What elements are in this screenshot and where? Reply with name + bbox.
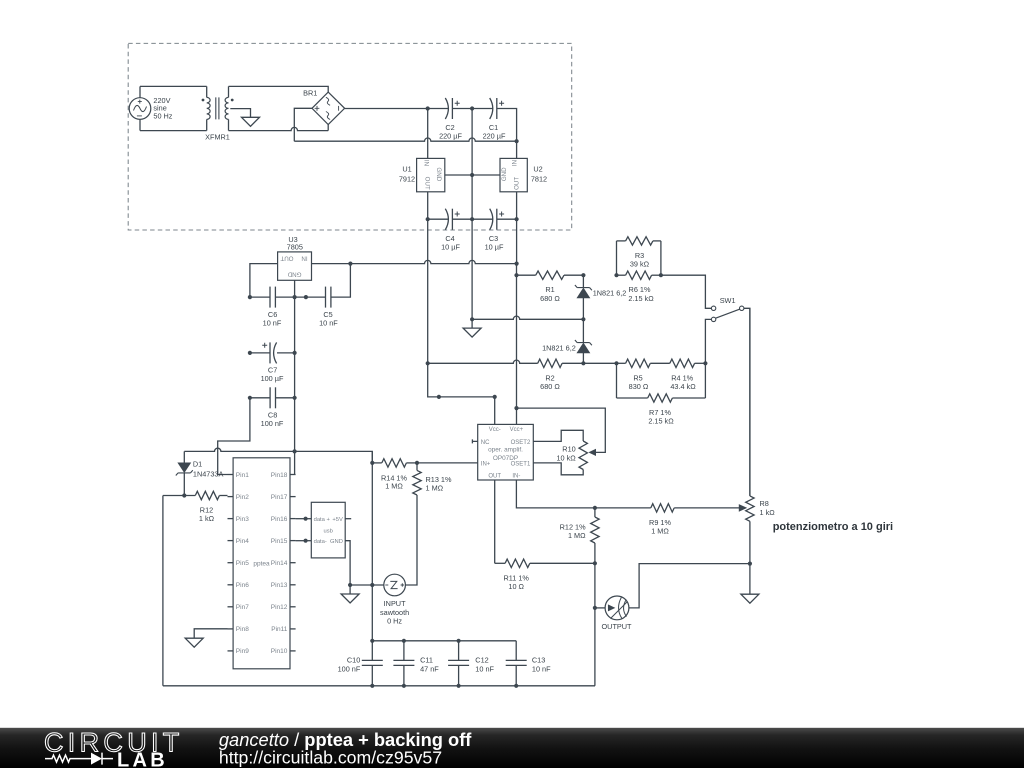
wire — [452, 218, 492, 220]
svg-text:Pin12: Pin12 — [271, 604, 288, 611]
svg-text:Pin7: Pin7 — [236, 604, 249, 611]
junction — [248, 351, 252, 355]
svg-text:OUT: OUT — [514, 177, 521, 190]
bridge rectifier BR1 — [312, 92, 345, 124]
svg-text:GND: GND — [287, 270, 301, 277]
junction — [402, 639, 406, 643]
svg-text:1N821 6,2: 1N821 6,2 — [593, 288, 627, 297]
wire — [452, 108, 492, 110]
wire — [140, 130, 207, 132]
junction — [515, 217, 519, 221]
wire — [427, 109, 429, 159]
svg-text:OUT: OUT — [280, 255, 293, 262]
regulator U2 7812 — [500, 158, 527, 191]
wire — [296, 518, 312, 520]
svg-text:potenziometro a 10 giri: potenziometro a 10 giri — [773, 521, 893, 533]
resistor R7 2.15k — [616, 363, 618, 398]
capacitor C5 10nF — [325, 287, 327, 308]
svg-text:39 kΩ: 39 kΩ — [630, 260, 650, 269]
svg-text:680 Ω: 680 Ω — [540, 294, 560, 303]
svg-text:10 nF: 10 nF — [475, 664, 494, 673]
junction — [470, 217, 474, 221]
svg-text:oper. amplif.: oper. amplif. — [488, 447, 523, 454]
svg-text:Pin18: Pin18 — [271, 472, 288, 479]
svg-text:Pin5: Pin5 — [236, 560, 249, 567]
wire — [295, 451, 373, 463]
svg-text:U2: U2 — [533, 165, 542, 174]
zener diode D2 1N821 — [582, 275, 584, 287]
switch SW1 — [711, 306, 715, 310]
svg-text:43.4 kΩ: 43.4 kΩ — [670, 382, 696, 391]
wire — [276, 397, 295, 399]
wire — [331, 264, 351, 298]
svg-text:220 µF: 220 µF — [483, 132, 506, 141]
svg-text:Pin1: Pin1 — [236, 472, 249, 479]
wire — [371, 451, 373, 660]
svg-text:R10: R10 — [562, 445, 575, 454]
junction — [370, 461, 374, 465]
svg-text:10 nF: 10 nF — [532, 664, 551, 673]
wire — [140, 85, 207, 87]
svg-text:NC: NC — [481, 440, 490, 446]
svg-text:1N4733A: 1N4733A — [193, 469, 224, 478]
svg-text:Pin3: Pin3 — [236, 516, 249, 523]
wire — [744, 308, 750, 496]
wire — [428, 218, 449, 220]
wire — [616, 241, 618, 275]
svg-text:data +: data + — [314, 517, 331, 523]
junction — [514, 406, 518, 410]
svg-text:GND: GND — [501, 167, 508, 181]
ground — [741, 594, 759, 603]
svg-text:10 nF: 10 nF — [319, 319, 338, 328]
junction — [248, 396, 252, 400]
capacitor C13 10nF — [515, 641, 517, 661]
wire — [594, 563, 596, 686]
svg-text:sawtooth: sawtooth — [380, 608, 409, 617]
svg-text:OP07DP: OP07DP — [493, 455, 518, 462]
resistor R4 43.4k — [650, 362, 670, 364]
junction — [593, 606, 597, 610]
svg-text:D1: D1 — [193, 460, 202, 469]
junction — [703, 361, 707, 365]
junction — [515, 262, 519, 266]
svg-text:+5V: +5V — [332, 517, 343, 523]
svg-text:10 kΩ: 10 kΩ — [556, 454, 576, 463]
svg-text:OUT: OUT — [423, 177, 430, 190]
svg-text:C12: C12 — [475, 656, 488, 665]
wire — [445, 174, 500, 176]
junction — [304, 517, 308, 521]
wire — [427, 192, 429, 219]
junction — [348, 262, 352, 266]
wire — [230, 109, 250, 118]
wire — [705, 319, 711, 363]
wire — [218, 398, 250, 475]
junction — [457, 639, 461, 643]
capacitor C8 100nF — [269, 387, 271, 408]
junction — [748, 562, 752, 566]
ground — [463, 328, 481, 337]
wire — [471, 109, 473, 220]
junction — [581, 273, 585, 277]
svg-text:1 kΩ: 1 kΩ — [199, 514, 215, 523]
svg-text:Pin15: Pin15 — [271, 538, 288, 545]
wire — [497, 218, 517, 220]
resistor R6 2.15k — [617, 274, 626, 276]
wire — [516, 192, 518, 219]
svg-text:0 Hz: 0 Hz — [387, 617, 402, 626]
svg-text:OSET1: OSET1 — [511, 461, 531, 467]
junction — [304, 539, 308, 543]
svg-text:U1: U1 — [402, 165, 411, 174]
wire — [296, 540, 312, 542]
junction — [248, 295, 252, 299]
svg-text:7805: 7805 — [287, 243, 303, 252]
svg-text:Vcc-: Vcc- — [489, 427, 501, 433]
junction — [470, 173, 474, 177]
svg-text:100 µF: 100 µF — [261, 374, 284, 383]
wire — [372, 640, 516, 642]
ground — [341, 594, 359, 603]
junction — [370, 639, 374, 643]
svg-text:IN+: IN+ — [481, 461, 491, 467]
wire — [472, 316, 583, 319]
svg-text:100 nF: 100 nF — [338, 664, 361, 673]
regulator U3 7805 — [278, 252, 312, 280]
svg-text:XFMR1: XFMR1 — [205, 133, 230, 142]
svg-text:10 Ω: 10 Ω — [508, 582, 524, 591]
wire — [497, 109, 517, 159]
svg-text:Pin9: Pin9 — [236, 648, 249, 655]
potentiometer R10 10k — [533, 430, 583, 441]
svg-text:Pin17: Pin17 — [271, 494, 288, 501]
capacitor C4 10uF — [445, 209, 448, 230]
svg-text:Pin10: Pin10 — [271, 648, 288, 655]
capacitor C11 47nF — [403, 641, 405, 661]
capacitor C6 10nF — [269, 287, 271, 308]
junction — [426, 106, 430, 110]
svg-text:pptea: pptea — [253, 561, 270, 568]
capacitor C12 10nF — [458, 641, 460, 661]
svg-text:Pin16: Pin16 — [271, 516, 288, 523]
svg-text:usb: usb — [324, 529, 333, 535]
voltage source V1 220V sine — [139, 86, 141, 97]
svg-text:OSET2: OSET2 — [511, 440, 531, 446]
svg-text:C10: C10 — [347, 656, 360, 665]
ground — [242, 117, 260, 126]
resistor R12b 1M — [594, 508, 596, 517]
svg-text:C11: C11 — [420, 656, 433, 665]
svg-text:IN: IN — [512, 160, 519, 166]
junction — [426, 217, 430, 221]
resistor R9 1M — [595, 507, 651, 509]
wire — [405, 498, 417, 586]
junction — [514, 684, 518, 688]
output probe OUTPUT — [605, 596, 629, 620]
svg-text:47 nF: 47 nF — [420, 664, 439, 673]
junction — [293, 449, 297, 453]
wire — [345, 541, 350, 585]
svg-text:BR1: BR1 — [303, 89, 317, 98]
junction — [426, 361, 430, 365]
junction — [581, 317, 585, 321]
wire — [229, 86, 329, 92]
svg-text:Pin14: Pin14 — [271, 560, 288, 567]
svg-text:100 nF: 100 nF — [261, 419, 284, 428]
capacitor C10 100nF — [362, 659, 383, 661]
resistor R5 830 — [617, 362, 626, 364]
wire — [428, 363, 495, 424]
svg-text:10 µF: 10 µF — [441, 243, 460, 252]
capacitor C1 220uF — [490, 98, 493, 119]
wire — [661, 275, 712, 308]
CircuitLab logo resistor-diode glyph — [45, 755, 91, 762]
resistor R13 1M — [416, 463, 418, 471]
wire — [250, 296, 270, 298]
svg-text:680 Ω: 680 Ω — [540, 382, 560, 391]
resistor R2 680 — [428, 360, 538, 363]
svg-text:IN: IN — [422, 160, 429, 166]
ground — [185, 638, 203, 647]
svg-text:GND: GND — [435, 167, 442, 181]
svg-text:Vcc+: Vcc+ — [510, 427, 524, 433]
svg-text:SW1: SW1 — [720, 296, 736, 305]
junction — [293, 295, 297, 299]
wire — [345, 108, 449, 110]
resistor R14 1M — [372, 462, 382, 464]
junction — [614, 361, 618, 365]
junction — [470, 317, 474, 321]
svg-text:Pin11: Pin11 — [271, 626, 288, 633]
usb interface U5 — [311, 502, 345, 558]
svg-text:1 MΩ: 1 MΩ — [426, 484, 444, 493]
svg-text:C13: C13 — [532, 656, 545, 665]
wire — [312, 260, 517, 263]
svg-text:C6: C6 — [268, 310, 277, 319]
wire — [275, 296, 325, 298]
wire — [516, 219, 518, 263]
IC U4 pptea — [233, 458, 290, 669]
svg-text:GND: GND — [330, 539, 343, 545]
wire — [294, 108, 312, 141]
junction — [659, 273, 663, 277]
svg-text:7912: 7912 — [399, 175, 415, 184]
junction — [470, 106, 474, 110]
resistor R1 680 — [517, 274, 536, 276]
svg-text:2.15 kΩ: 2.15 kΩ — [628, 294, 654, 303]
svg-text:1 MΩ: 1 MΩ — [651, 527, 669, 536]
svg-text:830 Ω: 830 Ω — [629, 382, 649, 391]
junction — [493, 395, 497, 399]
wire — [516, 480, 595, 508]
junction — [402, 684, 406, 688]
capacitor C7 100uF — [269, 342, 271, 363]
svg-text:Pin8: Pin8 — [236, 626, 249, 633]
wire — [194, 629, 227, 638]
junction — [348, 583, 352, 587]
junction — [457, 684, 461, 688]
op-amp U6 OP07DP — [478, 424, 534, 480]
wire — [349, 585, 351, 594]
svg-text:OUT: OUT — [488, 473, 501, 479]
svg-text:http://circuitlab.com/cz95v57: http://circuitlab.com/cz95v57 — [219, 747, 442, 767]
wire — [294, 280, 296, 474]
resistor R3 39k — [617, 240, 626, 242]
wire — [629, 564, 750, 608]
junction — [581, 361, 585, 365]
zener diode D1 1N4733A — [183, 451, 185, 463]
wire — [749, 564, 751, 595]
svg-text:220 µF: 220 µF — [439, 132, 462, 141]
svg-text:LAB: LAB — [117, 749, 168, 768]
svg-text:IN: IN — [301, 255, 307, 262]
junction — [415, 461, 419, 465]
source V2 INPUT sawtooth — [384, 574, 406, 596]
junction — [370, 583, 374, 587]
wire — [229, 127, 329, 130]
junction — [515, 139, 519, 143]
wire — [250, 397, 270, 399]
wire — [583, 362, 616, 364]
wire — [184, 448, 294, 451]
svg-text:50 Hz: 50 Hz — [153, 111, 172, 120]
junction — [293, 396, 297, 400]
wire — [417, 462, 478, 464]
svg-text:1 MΩ: 1 MΩ — [568, 531, 586, 540]
svg-text:data-: data- — [314, 539, 327, 545]
wire — [350, 584, 384, 586]
wire — [595, 607, 605, 609]
svg-text:INPUT: INPUT — [384, 599, 406, 608]
svg-text:1N821 6,2: 1N821 6,2 — [542, 343, 576, 352]
pin NC stub — [472, 439, 477, 443]
resistor R11 10 — [495, 562, 505, 564]
capacitor C3 10uF — [490, 209, 493, 230]
wire — [163, 685, 595, 687]
svg-text:IN-: IN- — [512, 473, 520, 479]
regulator U1 7912 — [417, 158, 445, 191]
junction — [370, 684, 374, 688]
svg-text:Pin4: Pin4 — [236, 538, 249, 545]
junction — [437, 395, 441, 399]
svg-text:1 kΩ: 1 kΩ — [760, 508, 776, 517]
junction — [593, 506, 597, 510]
svg-text:10 µF: 10 µF — [485, 243, 504, 252]
junction — [514, 273, 518, 277]
wire — [427, 219, 429, 363]
wire — [162, 496, 164, 686]
resistor R12 1k — [163, 495, 195, 497]
wire — [660, 241, 662, 275]
power supply enclosure (dashed box) — [128, 43, 572, 230]
junction — [593, 561, 597, 565]
wire — [494, 480, 496, 563]
svg-text:C5: C5 — [323, 310, 332, 319]
junction — [304, 295, 308, 299]
svg-text:7812: 7812 — [531, 175, 547, 184]
wire — [294, 138, 516, 141]
transformer XFMR1 — [206, 86, 208, 97]
wire — [250, 264, 278, 298]
wire — [516, 264, 518, 425]
junction — [614, 273, 618, 277]
wire — [277, 352, 295, 354]
svg-text:1 MΩ: 1 MΩ — [385, 482, 403, 491]
wire — [250, 352, 270, 354]
zener diode D3 1N821 — [582, 319, 584, 342]
svg-text:Pin2: Pin2 — [236, 494, 249, 501]
svg-text:2.15 kΩ: 2.15 kΩ — [648, 417, 674, 426]
capacitor C2 220uF — [445, 98, 448, 119]
potentiometer R8 1k — [749, 308, 751, 496]
svg-text:OUTPUT: OUTPUT — [602, 622, 633, 631]
svg-text:Pin13: Pin13 — [271, 582, 288, 589]
junction — [293, 351, 297, 355]
svg-text:Pin6: Pin6 — [236, 582, 249, 589]
wire — [471, 219, 473, 328]
junction — [182, 493, 186, 497]
svg-text:10 nF: 10 nF — [263, 319, 282, 328]
